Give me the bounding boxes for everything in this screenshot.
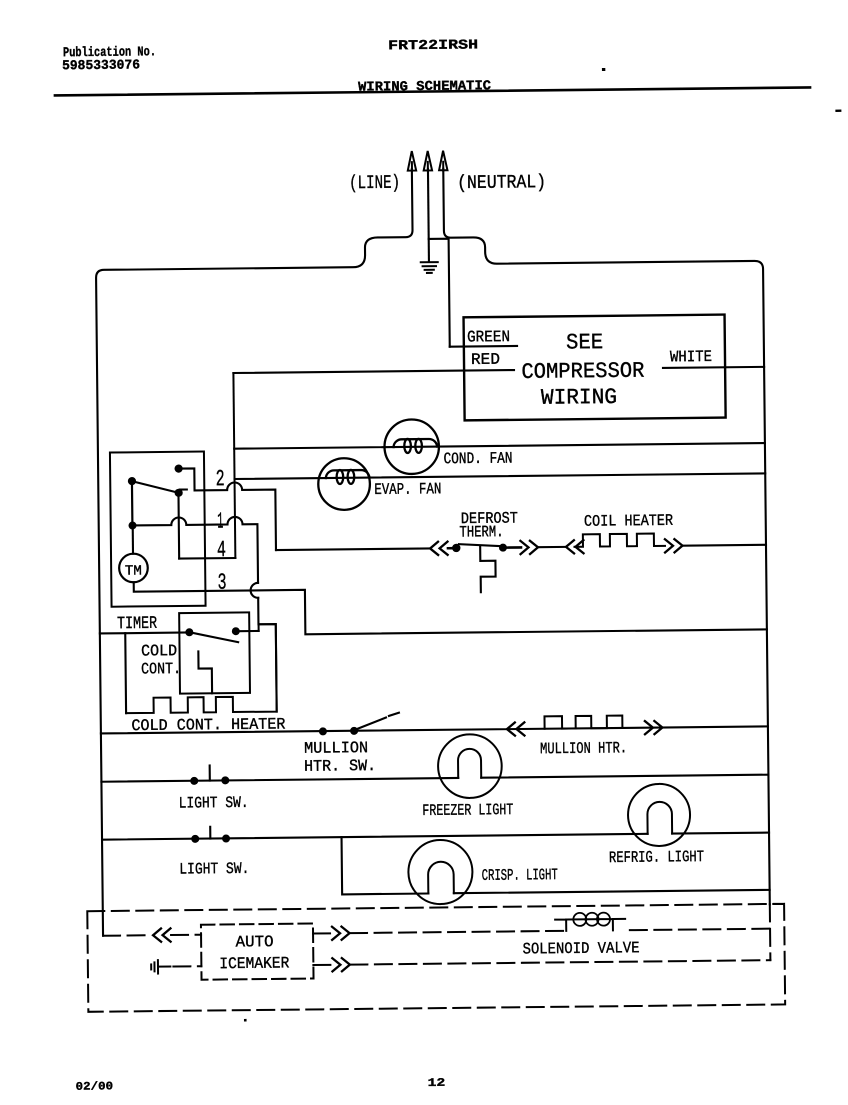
- timer dot (D) on terminal 1 wire: [128, 521, 136, 529]
- wire: D to TM: [132, 525, 134, 553]
- power plug prong arrow 2: [423, 151, 432, 171]
- svg-text:(LINE): (LINE): [349, 172, 400, 195]
- wire: crisper light branch: [342, 833, 770, 895]
- cold control inner box: [179, 612, 250, 693]
- defrost thermostat terminal dot 2: [499, 544, 507, 552]
- timer box: [110, 452, 206, 607]
- icemaker ground symbol: [151, 960, 170, 974]
- wire: condenser fan rail: [234, 443, 765, 449]
- svg-text:THERM.: THERM.: [459, 523, 503, 541]
- crisper light switch dot 1: [191, 835, 199, 843]
- freezer light switch dot 1: [190, 777, 198, 785]
- cold control bellows staircase: [198, 651, 212, 693]
- connector << before mullion heater: [507, 722, 525, 735]
- freezer light switch dot 2: [221, 776, 229, 784]
- wire: ground to icemaker box (dashed): [173, 965, 201, 967]
- svg-text:COLD: COLD: [141, 642, 177, 660]
- connector >> icemaker row2: [332, 958, 350, 971]
- wire: B down to D: [131, 481, 134, 525]
- scan speck 2: [835, 110, 841, 112]
- wire: left edge corner into icemaker row (dashed): [103, 934, 145, 936]
- wire: terminal 1 line with hops, corner down to cold control: [132, 516, 276, 713]
- svg-text:LIGHT SW.: LIGHT SW.: [179, 860, 249, 879]
- wire: ground branch to GREEN riser: [429, 239, 450, 347]
- mullion heater element: [544, 716, 622, 729]
- refrigerator light bulb filament: [647, 802, 672, 834]
- crisper light circle: [408, 840, 473, 905]
- svg-text:2: 2: [216, 466, 225, 492]
- wire: LINE prong S-curve to left rail and outer-left edge down to icemaker row: [95, 169, 420, 936]
- svg-text:ICEMAKER: ICEMAKER: [219, 954, 290, 973]
- connector >> after defrost thermostat: [520, 541, 538, 554]
- wire: icemaker out row2 (dashed): [313, 964, 330, 966]
- wire: NEUTRAL prong S-curve to right rail and outer-right edge: [443, 165, 770, 907]
- wire: connector to icemaker box (dashed): [171, 934, 201, 936]
- svg-text:MULLION HTR.: MULLION HTR.: [540, 739, 627, 758]
- wire: mullion rail: [101, 726, 768, 733]
- ground symbol (power cord): [421, 262, 438, 273]
- wire: defrost row left segment: [276, 548, 430, 550]
- svg-text:SOLENOID VALVE: SOLENOID VALVE: [522, 939, 639, 958]
- mullion switch blade: [357, 718, 386, 730]
- defrost thermostat capillary staircase: [480, 546, 496, 593]
- wire: center prong to ground: [427, 169, 430, 262]
- solenoid valve coil: [555, 919, 625, 931]
- dashed enclosure box (icemaker/solenoid section): [87, 904, 785, 1012]
- wire WHITE from compressor box to right edge: [663, 367, 764, 368]
- svg-text:MULLION: MULLION: [304, 739, 368, 758]
- svg-text:4: 4: [217, 537, 226, 563]
- svg-text:RED: RED: [471, 351, 500, 369]
- svg-text:WIRING: WIRING: [541, 385, 617, 411]
- crisper light bulb filament: [428, 862, 454, 894]
- svg-text:1: 1: [217, 509, 223, 535]
- svg-text:CONT.: CONT.: [141, 660, 181, 678]
- connector >> after mullion heater: [645, 721, 663, 734]
- timer terminal 2 dot (A): [174, 464, 182, 472]
- wire: row1 to solenoid (dashed): [350, 931, 566, 933]
- crisper light switch plunger: [209, 827, 211, 839]
- svg-text:COND. FAN: COND. FAN: [443, 450, 512, 469]
- wire: rail from left edge to cold control dot1: [100, 631, 190, 634]
- svg-text:12: 12: [428, 1077, 446, 1090]
- wire: evaporator fan rail: [235, 473, 766, 479]
- svg-text:AUTO: AUTO: [235, 933, 273, 951]
- motor: evaporator fan: [318, 458, 370, 510]
- header rule line: [55, 87, 810, 95]
- mullion switch dot 2: [350, 727, 358, 735]
- timer motor TM circle: [119, 554, 148, 583]
- wire GREEN into compressor box: [450, 345, 517, 348]
- timer switch common dot (B): [128, 477, 136, 485]
- wire: RED riser from RED wire down to terminal 4: [233, 373, 235, 558]
- wire: crisper rail: [102, 833, 769, 840]
- wire RED from riser to compressor box: [233, 370, 514, 373]
- svg-text:(NEUTRAL): (NEUTRAL): [457, 171, 546, 194]
- compressor wiring box: [464, 315, 726, 421]
- power plug prong arrow 1: [408, 151, 417, 171]
- wire: coil heater to right edge: [682, 544, 766, 547]
- mullion switch dot 1: [319, 727, 327, 735]
- timer switch blade B-C: [133, 481, 178, 493]
- svg-text:LIGHT SW.: LIGHT SW.: [179, 794, 249, 813]
- wire: timer terminal 2 to defrost row (hops RED riser): [179, 468, 276, 552]
- wire: row2 to right edge (dashed): [350, 960, 770, 964]
- wire: right inner dashed riser: [769, 904, 772, 960]
- svg-text:HTR. SW.: HTR. SW.: [304, 757, 376, 776]
- scan speck 3: [244, 1019, 247, 1022]
- cold control terminal dot 2: [232, 627, 240, 635]
- svg-text:COIL HEATER: COIL HEATER: [584, 512, 674, 531]
- freezer light circle: [438, 734, 502, 798]
- wire: cold control dot2 to terminal-1 riser: [240, 630, 259, 632]
- wire: icemaker out row1 (dashed): [313, 932, 330, 934]
- svg-text:FREEZER LIGHT: FREEZER LIGHT: [422, 801, 513, 820]
- cold control heater element (envelope bottom with bumps) and right edge: [125, 624, 277, 713]
- power plug prong arrow 3: [439, 151, 448, 171]
- svg-text:TIMER: TIMER: [117, 614, 158, 634]
- connector >> icemaker row1: [332, 927, 350, 940]
- connector << before coil heater: [566, 540, 584, 553]
- freezer light bulb filament: [458, 749, 481, 778]
- cold control switch blade: [193, 632, 238, 642]
- coil heater element: [574, 533, 665, 546]
- wire: terminal 4 line: [179, 557, 235, 560]
- svg-text:02/00: 02/00: [76, 1080, 114, 1093]
- header: publication number text: [62, 45, 156, 74]
- wire: C down to terminal 4 wire: [177, 493, 180, 559]
- connector >> after coil heater: [665, 539, 683, 552]
- wire: solenoid to right (dashed): [630, 929, 770, 930]
- svg-text:FRT22IRSH: FRT22IRSH: [388, 38, 478, 54]
- wire: freezer light rail (right of bulb): [481, 775, 768, 778]
- mullion switch blade tick: [389, 713, 399, 716]
- wire: connector to defrost dot1: [448, 547, 453, 550]
- svg-text:TM: TM: [125, 563, 142, 579]
- svg-text:5985333076: 5985333076: [62, 58, 140, 74]
- cold control terminal dot 1: [185, 628, 193, 636]
- svg-text:WHITE: WHITE: [670, 348, 712, 366]
- crisper light switch dot 2: [222, 834, 230, 842]
- wire: dot2 to connector >>: [507, 546, 521, 549]
- motor: condenser fan: [384, 419, 439, 474]
- wire: defrost to coil heater connector: [538, 546, 566, 548]
- wire: TM to timer terminal 3 rail: [134, 576, 767, 637]
- auto icemaker dashed box: [201, 924, 314, 980]
- freezer light switch plunger: [209, 765, 211, 780]
- svg-text:COMPRESSOR: COMPRESSOR: [521, 359, 644, 385]
- svg-text:REFRIG. LIGHT: REFRIG. LIGHT: [609, 848, 704, 867]
- timer switch contact tick at C: [180, 488, 187, 490]
- connector << before icemaker: [153, 928, 171, 941]
- svg-text:SEE: SEE: [566, 330, 603, 355]
- connector << before defrost thermostat: [430, 542, 448, 555]
- cold control envelope left edge: [124, 633, 127, 713]
- defrost thermostat blade: [459, 544, 501, 547]
- timer contact dot (C): [175, 489, 183, 497]
- label SEE COMPRESSOR WIRING: [521, 330, 645, 411]
- refrigerator light circle: [628, 784, 691, 847]
- svg-text:GREEN: GREEN: [467, 328, 510, 346]
- hop: terminal-1 riser over timer-motor rail: [251, 583, 259, 598]
- wire: freezer light rail (left of bulb): [101, 778, 458, 782]
- svg-text:CRISP. LIGHT: CRISP. LIGHT: [482, 866, 558, 885]
- defrost thermostat terminal dot 1: [452, 544, 460, 552]
- svg-text:EVAP. FAN: EVAP. FAN: [374, 480, 441, 499]
- scan speck 1: [602, 68, 605, 71]
